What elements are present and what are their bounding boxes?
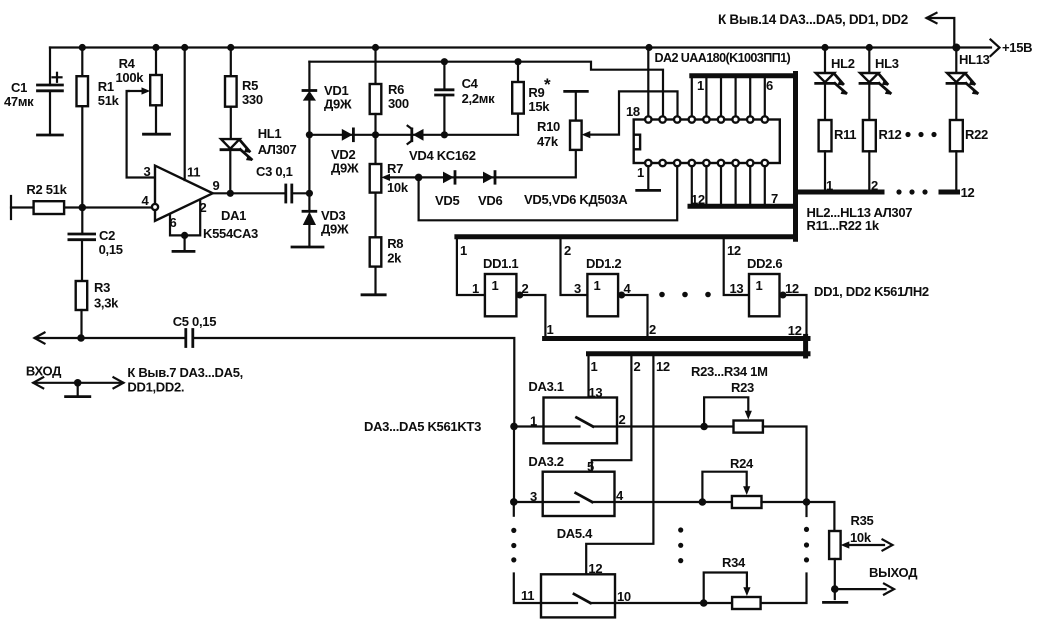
LED HL13 column — [947, 48, 990, 95]
wire DA3.2 output row — [615, 498, 732, 506]
svg-text:DD1,DD2.: DD1,DD2. — [127, 380, 184, 395]
svg-text:R24: R24 — [730, 456, 754, 471]
capacitor C4 2,2mk — [436, 62, 495, 135]
resistor R6 300 — [370, 48, 409, 135]
svg-text:7: 7 — [771, 191, 778, 206]
svg-text:К Выв.7 DA3...DA5,: К Выв.7 DA3...DA5, — [127, 365, 243, 380]
LED HL3 column — [860, 48, 899, 95]
wire DD1.2 output — [625, 295, 656, 337]
svg-text:Д9Ж: Д9Ж — [324, 97, 352, 112]
wire R34 to right column dotted — [761, 502, 810, 603]
svg-text:1: 1 — [637, 165, 644, 180]
svg-text:12: 12 — [656, 359, 670, 374]
svg-text:330: 330 — [242, 92, 263, 107]
wire DD input group bus — [457, 234, 796, 239]
ground VD3 — [292, 246, 323, 249]
svg-text:R23...R34 1M: R23...R34 1M — [691, 364, 768, 379]
svg-text:C2: C2 — [99, 228, 115, 243]
wire R24 to right column and R35 — [762, 498, 835, 531]
svg-text:9: 9 — [213, 178, 220, 193]
svg-text:R10: R10 — [537, 119, 560, 134]
resistor R9 15k — [512, 62, 551, 135]
svg-text:300: 300 — [388, 96, 409, 111]
pin circles DA2 top row — [645, 116, 768, 122]
wire pin11 from rail — [184, 48, 186, 181]
svg-text:AЛ307: AЛ307 — [258, 142, 297, 157]
wire DA1 output node — [213, 190, 286, 197]
resistor R24 1M — [702, 456, 761, 508]
svg-text:51k: 51k — [98, 93, 120, 108]
node input terminal VHOD — [26, 364, 243, 397]
wire DA2 pin18 to rail — [647, 48, 649, 117]
svg-text:HL2: HL2 — [831, 56, 855, 71]
svg-text:DD1.1: DD1.1 — [483, 256, 518, 271]
svg-text:R2 51k: R2 51k — [26, 182, 67, 197]
svg-text:12: 12 — [727, 243, 741, 258]
wire control drop 12 to DA5.4 pin12 — [586, 356, 670, 576]
wire DD2.6 output — [786, 295, 806, 338]
diode VD6 KD503A — [478, 172, 628, 208]
svg-text:4: 4 — [616, 488, 624, 503]
resistor R7 10k trimmer — [370, 135, 423, 238]
node output terminal VYHOD — [824, 559, 919, 602]
resistor R10 47k trimmer — [537, 91, 590, 149]
svg-text:1: 1 — [591, 359, 598, 374]
svg-text:13: 13 — [730, 281, 744, 296]
svg-text:4: 4 — [624, 281, 632, 296]
node ellipsis gates — [659, 292, 711, 298]
svg-text:18: 18 — [626, 104, 640, 119]
svg-text:0,15: 0,15 — [99, 242, 123, 257]
svg-text:12: 12 — [788, 323, 802, 338]
op-amp U2 DA2 UAA180 chip body — [626, 51, 791, 180]
svg-text:1: 1 — [472, 281, 479, 296]
wire control bus right bend — [803, 336, 808, 356]
svg-text:4: 4 — [142, 193, 150, 208]
LED HL1 AL307 — [221, 126, 296, 193]
ground C1 — [38, 134, 63, 137]
capacitor C5 0,15 and input feed line — [35, 314, 515, 426]
node +15V terminal arrow — [991, 40, 1033, 57]
wire control drop 1 to DA3.1 pin13 — [589, 356, 603, 400]
wire LED cathode group bus — [796, 189, 958, 233]
ground DA2 pin1 — [637, 166, 660, 190]
svg-text:DA2 UAA180(K1003ПП1): DA2 UAA180(K1003ПП1) — [655, 51, 791, 65]
analog switch DA3.2 — [528, 454, 624, 516]
svg-text:10k: 10k — [850, 530, 872, 545]
svg-text:2: 2 — [522, 281, 529, 296]
resistor R2 51k input — [11, 182, 152, 219]
svg-text:R7: R7 — [387, 161, 403, 176]
resistor R22 1k — [950, 83, 988, 200]
diode VD5 KD503A — [435, 172, 459, 208]
svg-text:R23: R23 — [731, 380, 754, 395]
svg-text:10: 10 — [617, 589, 631, 604]
svg-text:R11: R11 — [834, 127, 856, 142]
svg-text:10k: 10k — [387, 180, 409, 195]
svg-text:R3: R3 — [94, 280, 110, 295]
wire R7 node to DA2 pin3 — [419, 166, 678, 220]
ground R8 — [362, 293, 385, 296]
svg-text:DA1: DA1 — [221, 208, 246, 223]
svg-text:1: 1 — [756, 278, 763, 293]
svg-text:R34: R34 — [722, 555, 746, 570]
svg-text:1: 1 — [547, 322, 554, 337]
node rail junction dots — [79, 44, 961, 52]
resistor R34 1M — [704, 555, 761, 609]
svg-text:DA3...DA5 K561KT3: DA3...DA5 K561KT3 — [364, 419, 481, 434]
wire comparator threshold line — [309, 131, 518, 138]
wire trunk bus vertical — [793, 74, 798, 240]
resistor R4 100k trimmer — [116, 48, 170, 178]
svg-text:HL1: HL1 — [258, 126, 282, 141]
wire DD2.6 input drop — [724, 239, 749, 295]
wire R23 to right column — [763, 427, 807, 503]
svg-text:DD1.2: DD1.2 — [586, 256, 621, 271]
capacitor C1 47mk — [4, 48, 62, 136]
svg-text:R35: R35 — [851, 513, 874, 528]
svg-text:47мк: 47мк — [4, 94, 34, 109]
op-amp DA1 K554CA3 — [142, 164, 259, 241]
svg-text:3: 3 — [574, 281, 581, 296]
ground DA1 — [173, 250, 194, 253]
svg-text:C1: C1 — [11, 80, 27, 95]
wire DD1.1 input drop — [457, 239, 485, 295]
svg-text:2,2мк: 2,2мк — [462, 91, 495, 106]
svg-text:R9: R9 — [528, 85, 544, 100]
wire VD junction to C3 node — [308, 135, 310, 212]
resistor R1 51k — [77, 48, 120, 208]
wire DA3.1 output row — [617, 423, 734, 431]
node VD1-VD2 junction — [306, 131, 313, 138]
svg-text:C5 0,15: C5 0,15 — [173, 314, 217, 329]
svg-text:R1: R1 — [98, 79, 114, 94]
diode VD1 D9Zh — [303, 62, 352, 135]
svg-text:11: 11 — [187, 165, 200, 180]
svg-text:VD4 KC162: VD4 KC162 — [409, 148, 476, 163]
svg-text:3,3k: 3,3k — [94, 296, 119, 311]
svg-text:R11...R22 1k: R11...R22 1k — [807, 218, 880, 233]
svg-text:R6: R6 — [388, 82, 404, 97]
svg-text:100k: 100k — [116, 70, 145, 85]
svg-text:1: 1 — [594, 278, 601, 293]
svg-text:12: 12 — [961, 185, 975, 200]
svg-text:Д9Ж: Д9Ж — [321, 222, 349, 237]
svg-text:DA5.4: DA5.4 — [557, 526, 593, 541]
svg-text:47k: 47k — [537, 134, 559, 149]
analog switch DA5.4 — [521, 526, 631, 617]
logic gate DD1.2 — [574, 256, 632, 316]
wire R7 wiper to R10 bottom via VD5 VD6 — [419, 150, 576, 178]
wire reference rail (second rail) — [309, 58, 663, 116]
svg-text:2: 2 — [619, 412, 626, 427]
svg-text:1: 1 — [460, 243, 467, 258]
wire R10 wiper to DA2 pin16 — [590, 91, 677, 134]
node ellipsis column mid — [678, 527, 683, 563]
svg-text:К Выв.14 DA3...DA5, DD1, DD2: К Выв.14 DA3...DA5, DD1, DD2 — [718, 12, 908, 27]
wire control group bus lower — [589, 351, 809, 356]
node input distribution column — [364, 419, 541, 603]
svg-text:ВЫХОД: ВЫХОД — [869, 565, 918, 580]
ground R35 — [824, 601, 847, 604]
svg-text:3: 3 — [144, 164, 151, 179]
svg-text:HL3: HL3 — [875, 56, 899, 71]
resistor R23 1M — [691, 364, 768, 433]
svg-text:15k: 15k — [528, 99, 550, 114]
svg-text:R8: R8 — [387, 236, 403, 251]
resistor R11 1k — [819, 83, 857, 193]
svg-text:R4: R4 — [119, 56, 136, 71]
capacitor C3 0,1 — [256, 164, 313, 202]
svg-text:K554CA3: K554CA3 — [203, 226, 258, 241]
diode VD3 D9Zh — [292, 208, 349, 247]
svg-text:2: 2 — [634, 359, 641, 374]
zener VD4 KS162 — [408, 126, 476, 163]
svg-text:VD5,VD6 KД503A: VD5,VD6 KД503A — [524, 192, 628, 207]
svg-text:11: 11 — [521, 588, 534, 603]
wire DD1.1 output — [523, 295, 553, 337]
svg-text:R12: R12 — [879, 127, 902, 142]
svg-text:+15B: +15B — [1002, 40, 1032, 55]
svg-text:VD6: VD6 — [478, 193, 502, 208]
svg-text:2: 2 — [649, 322, 656, 337]
svg-text:R5: R5 — [242, 78, 258, 93]
svg-text:12: 12 — [691, 192, 705, 207]
capacitor C2 0,15 — [69, 208, 123, 282]
resistor R8 2k — [362, 236, 403, 295]
analog switch DA3.1 — [528, 379, 625, 443]
resistor R12 1k — [863, 83, 937, 193]
svg-text:HL13: HL13 — [959, 52, 990, 67]
wire DD1.2 input drop — [561, 239, 588, 295]
svg-text:DA3.1: DA3.1 — [528, 379, 563, 394]
wire R4 wiper to pin3 — [127, 91, 155, 178]
svg-text:*: * — [544, 75, 551, 94]
svg-text:R22: R22 — [965, 127, 988, 142]
ground R4 — [144, 133, 170, 136]
svg-text:12: 12 — [785, 281, 799, 296]
svg-text:2k: 2k — [387, 251, 402, 266]
wire K vyv.14 feed line — [718, 12, 954, 48]
logic gate DD2.6 — [730, 256, 929, 316]
svg-text:Д9Ж: Д9Ж — [331, 161, 359, 176]
svg-text:1: 1 — [697, 78, 704, 93]
svg-text:C3 0,1: C3 0,1 — [256, 164, 293, 179]
resistor R3 3,3k — [76, 280, 119, 342]
svg-text:DD2.6: DD2.6 — [747, 256, 782, 271]
svg-text:DA3.2: DA3.2 — [528, 454, 563, 469]
svg-text:C4: C4 — [462, 76, 479, 91]
svg-text:6: 6 — [766, 78, 773, 93]
wire DA5.4 output row — [615, 599, 732, 607]
pin circles DA2 bottom row — [645, 160, 768, 166]
wire +15V main rail — [50, 40, 1032, 57]
wire control drop 2 to DA3.2 pin5 — [587, 356, 641, 474]
logic gate DD1.1 — [472, 256, 529, 316]
svg-text:VD5: VD5 — [435, 193, 459, 208]
wire pins 6,2 to ground — [170, 200, 200, 251]
ground VHOD — [66, 395, 90, 398]
diode VD2 D9Zh — [331, 129, 359, 176]
resistor R5 330 — [225, 48, 263, 140]
wire DA2 bottom output bus — [690, 166, 796, 207]
svg-text:ВХОД: ВХОД — [26, 364, 62, 379]
wire DA3.2 input — [514, 501, 543, 503]
wire control group bus upper — [545, 336, 808, 341]
wire DA3.1 input — [514, 425, 544, 427]
svg-text:DD1, DD2 K561ЛН2: DD1, DD2 K561ЛН2 — [814, 284, 929, 299]
wire DA2 top output bus — [692, 76, 796, 117]
resistor R35 10k output pot — [829, 513, 892, 559]
LED HL2 column — [816, 48, 855, 95]
svg-text:2: 2 — [564, 243, 571, 258]
svg-text:1: 1 — [492, 278, 499, 293]
